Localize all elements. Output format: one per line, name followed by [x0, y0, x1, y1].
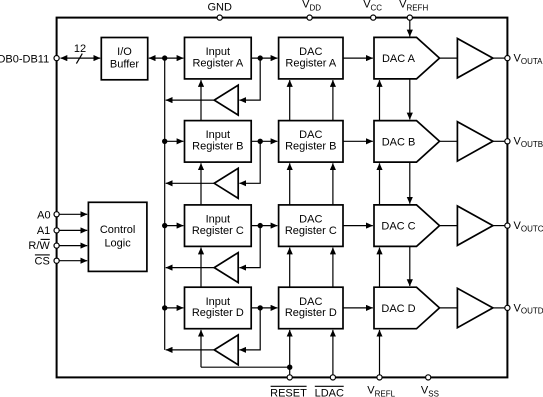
pin VOUTB: [505, 136, 543, 149]
node readback junction row A: [258, 55, 263, 60]
wire readback tap row A: [239, 58, 260, 100]
wire control line to Input Register B: [200, 163, 202, 205]
pin DB0-DB11: [0, 53, 59, 65]
wire readback buffer A to bus: [166, 99, 215, 101]
DAC Register C block: [279, 205, 343, 247]
output amplifier B: [457, 122, 493, 161]
pin LDAC: [315, 375, 344, 397]
wire DAC Register B to DAC B: [343, 140, 373, 142]
bus wire DB0-DB11 to I/O buffer (bidirectional, 12 bits): [61, 43, 101, 64]
wire VREFL line to DAC A: [379, 80, 381, 121]
output amplifier C: [457, 206, 493, 245]
readback buffer A: [214, 85, 238, 115]
svg-text:Register D: Register D: [192, 307, 244, 319]
DAC B block: [374, 121, 440, 163]
svg-text:Register D: Register D: [285, 307, 337, 319]
svg-text:Register B: Register B: [192, 141, 243, 153]
pin VOUTD: [505, 302, 543, 315]
wire DAC A to amplifier A: [440, 57, 458, 59]
wire VREFH to DAC A: [409, 20, 411, 36]
wire control line to Input Register C: [200, 248, 202, 288]
wire LDAC line to DAC Register C: [332, 248, 334, 288]
wire LDAC line to DAC Register D: [332, 330, 334, 375]
DAC Register D block: [279, 287, 343, 329]
wire RESET branch to input-register control line: [201, 366, 290, 368]
svg-text:Register A: Register A: [285, 57, 336, 69]
svg-text:I/O: I/O: [117, 46, 132, 58]
svg-text:R/W: R/W: [28, 240, 50, 252]
node readback junction row C: [258, 223, 263, 228]
svg-text:DAC: DAC: [299, 296, 322, 308]
I/O Buffer block: [101, 38, 147, 80]
pin VCC: [363, 0, 382, 20]
wire RESET line to DAC Register B: [289, 163, 291, 205]
wire A0 to control logic: [59, 213, 87, 215]
svg-text:Logic: Logic: [104, 238, 131, 250]
wire A1 to control logic: [59, 229, 87, 231]
wire readback buffer C to bus: [166, 267, 215, 269]
DAC Register A block: [279, 37, 343, 79]
Input Register C block: [185, 205, 252, 247]
pin VREFH: [399, 0, 428, 20]
pin RESET: [270, 375, 307, 397]
node bus junction row B: [162, 139, 167, 144]
wire VREFH line to DAC D: [409, 246, 411, 286]
node data bus junction row A: [162, 55, 167, 60]
wire RESET line to DAC Register C: [289, 248, 291, 288]
wire amplifier C to output pin: [493, 225, 505, 227]
wire Input Register C to DAC Register C: [251, 225, 277, 227]
chip boundary box: [57, 18, 508, 378]
pin VOUTA: [505, 53, 543, 66]
svg-text:12: 12: [74, 43, 86, 55]
output amplifier D: [457, 288, 493, 327]
svg-text:LDAC: LDAC: [315, 387, 344, 397]
svg-text:CS: CS: [35, 255, 50, 267]
svg-text:Input: Input: [206, 46, 230, 58]
pin GND: [207, 2, 232, 21]
svg-text:Input: Input: [206, 214, 230, 226]
svg-text:Register A: Register A: [192, 57, 243, 69]
pin CS: [35, 255, 60, 267]
wire RW to control logic: [59, 245, 87, 247]
wire bus to Input Register B: [165, 140, 184, 142]
svg-text:DB0-DB11: DB0-DB11: [0, 53, 49, 65]
svg-text:Control: Control: [100, 224, 135, 236]
wire RESET line to DAC Register A: [289, 80, 291, 121]
wire amplifier D to output pin: [493, 307, 505, 309]
svg-text:Input: Input: [206, 129, 230, 141]
svg-text:DAC C: DAC C: [381, 221, 415, 233]
wire bus to Input Register C: [165, 225, 184, 227]
node readback junction row D: [258, 305, 263, 310]
svg-text:Register C: Register C: [285, 225, 337, 237]
wire VREFL line to DAC D: [379, 330, 381, 375]
pin R/W: [28, 239, 59, 252]
wire VREFL line to DAC B: [379, 163, 381, 205]
wire readback tap row C: [239, 226, 260, 268]
svg-text:A0: A0: [37, 210, 50, 222]
DAC Register B block: [279, 121, 343, 163]
svg-text:DAC B: DAC B: [382, 136, 416, 148]
wire DAC Register D to DAC D: [343, 307, 373, 309]
svg-text:GND: GND: [207, 2, 232, 14]
wire readback tap row B: [239, 141, 260, 183]
wire VREFL line to DAC C: [379, 248, 381, 288]
DAC A block: [374, 37, 440, 79]
svg-text:Input: Input: [206, 296, 230, 308]
wire VREFH line to DAC C: [409, 162, 411, 204]
node bus junction row D: [162, 305, 167, 310]
readback buffer C: [214, 253, 238, 283]
wire bus to Input Register D: [165, 307, 184, 309]
readback buffer D: [214, 335, 238, 365]
svg-text:DAC: DAC: [299, 214, 322, 226]
pin A0: [37, 210, 59, 222]
wire Input Register B to DAC Register B: [251, 140, 277, 142]
node RESET branch junction: [287, 365, 292, 370]
node bus junction row C: [162, 223, 167, 228]
pin VREFL: [367, 375, 395, 397]
wire DAC Register A to DAC A: [343, 57, 373, 59]
Input Register B block: [185, 121, 252, 163]
wire readback tap row D: [239, 308, 260, 350]
wire DAC D to amplifier D: [440, 307, 458, 309]
Input Register A block: [185, 37, 252, 79]
wire amplifier A to output pin: [493, 57, 505, 59]
wire DAC C to amplifier C: [440, 225, 458, 227]
wire internal data bus vertical: [164, 58, 166, 350]
wire VREFH line to DAC B: [409, 79, 411, 120]
svg-text:DAC D: DAC D: [381, 303, 415, 315]
node readback junction row B: [258, 139, 263, 144]
wire control line to Input Register D: [200, 330, 202, 367]
wire control line to Input Register A: [200, 80, 202, 121]
wire I/O buffer to Input Register A (bidirectional): [149, 57, 184, 59]
svg-text:RESET: RESET: [270, 387, 307, 397]
pin VSS: [421, 375, 439, 397]
wire LDAC line to DAC Register A: [332, 80, 334, 121]
pin VDD: [302, 0, 321, 20]
wire Input Register A to DAC Register A: [251, 57, 277, 59]
svg-text:DAC: DAC: [299, 46, 322, 58]
wire readback buffer B to bus: [166, 182, 215, 184]
DAC D block: [374, 287, 440, 329]
output amplifier A: [457, 39, 493, 78]
pin A1: [37, 225, 59, 237]
pin VOUTC: [505, 220, 543, 233]
svg-text:DAC: DAC: [299, 129, 322, 141]
DAC C block: [374, 205, 440, 247]
wire amplifier B to output pin: [493, 140, 505, 142]
svg-text:Register B: Register B: [285, 141, 336, 153]
Control Logic block: [88, 202, 146, 271]
wire readback buffer D to bus: [166, 349, 215, 351]
Input Register D block: [185, 287, 252, 329]
wire Input Register D to DAC Register D: [251, 307, 277, 309]
readback buffer B: [214, 168, 238, 198]
wire DAC B to amplifier B: [440, 140, 458, 142]
svg-text:DAC A: DAC A: [382, 53, 416, 65]
wire CS to control logic: [59, 260, 87, 262]
svg-text:A1: A1: [37, 225, 50, 237]
wire LDAC line to DAC Register B: [332, 163, 334, 205]
svg-text:Buffer: Buffer: [110, 59, 139, 71]
wire DAC Register C to DAC C: [343, 225, 373, 227]
wire RESET line to DAC Register D: [289, 330, 291, 375]
svg-text:Register C: Register C: [192, 225, 244, 237]
